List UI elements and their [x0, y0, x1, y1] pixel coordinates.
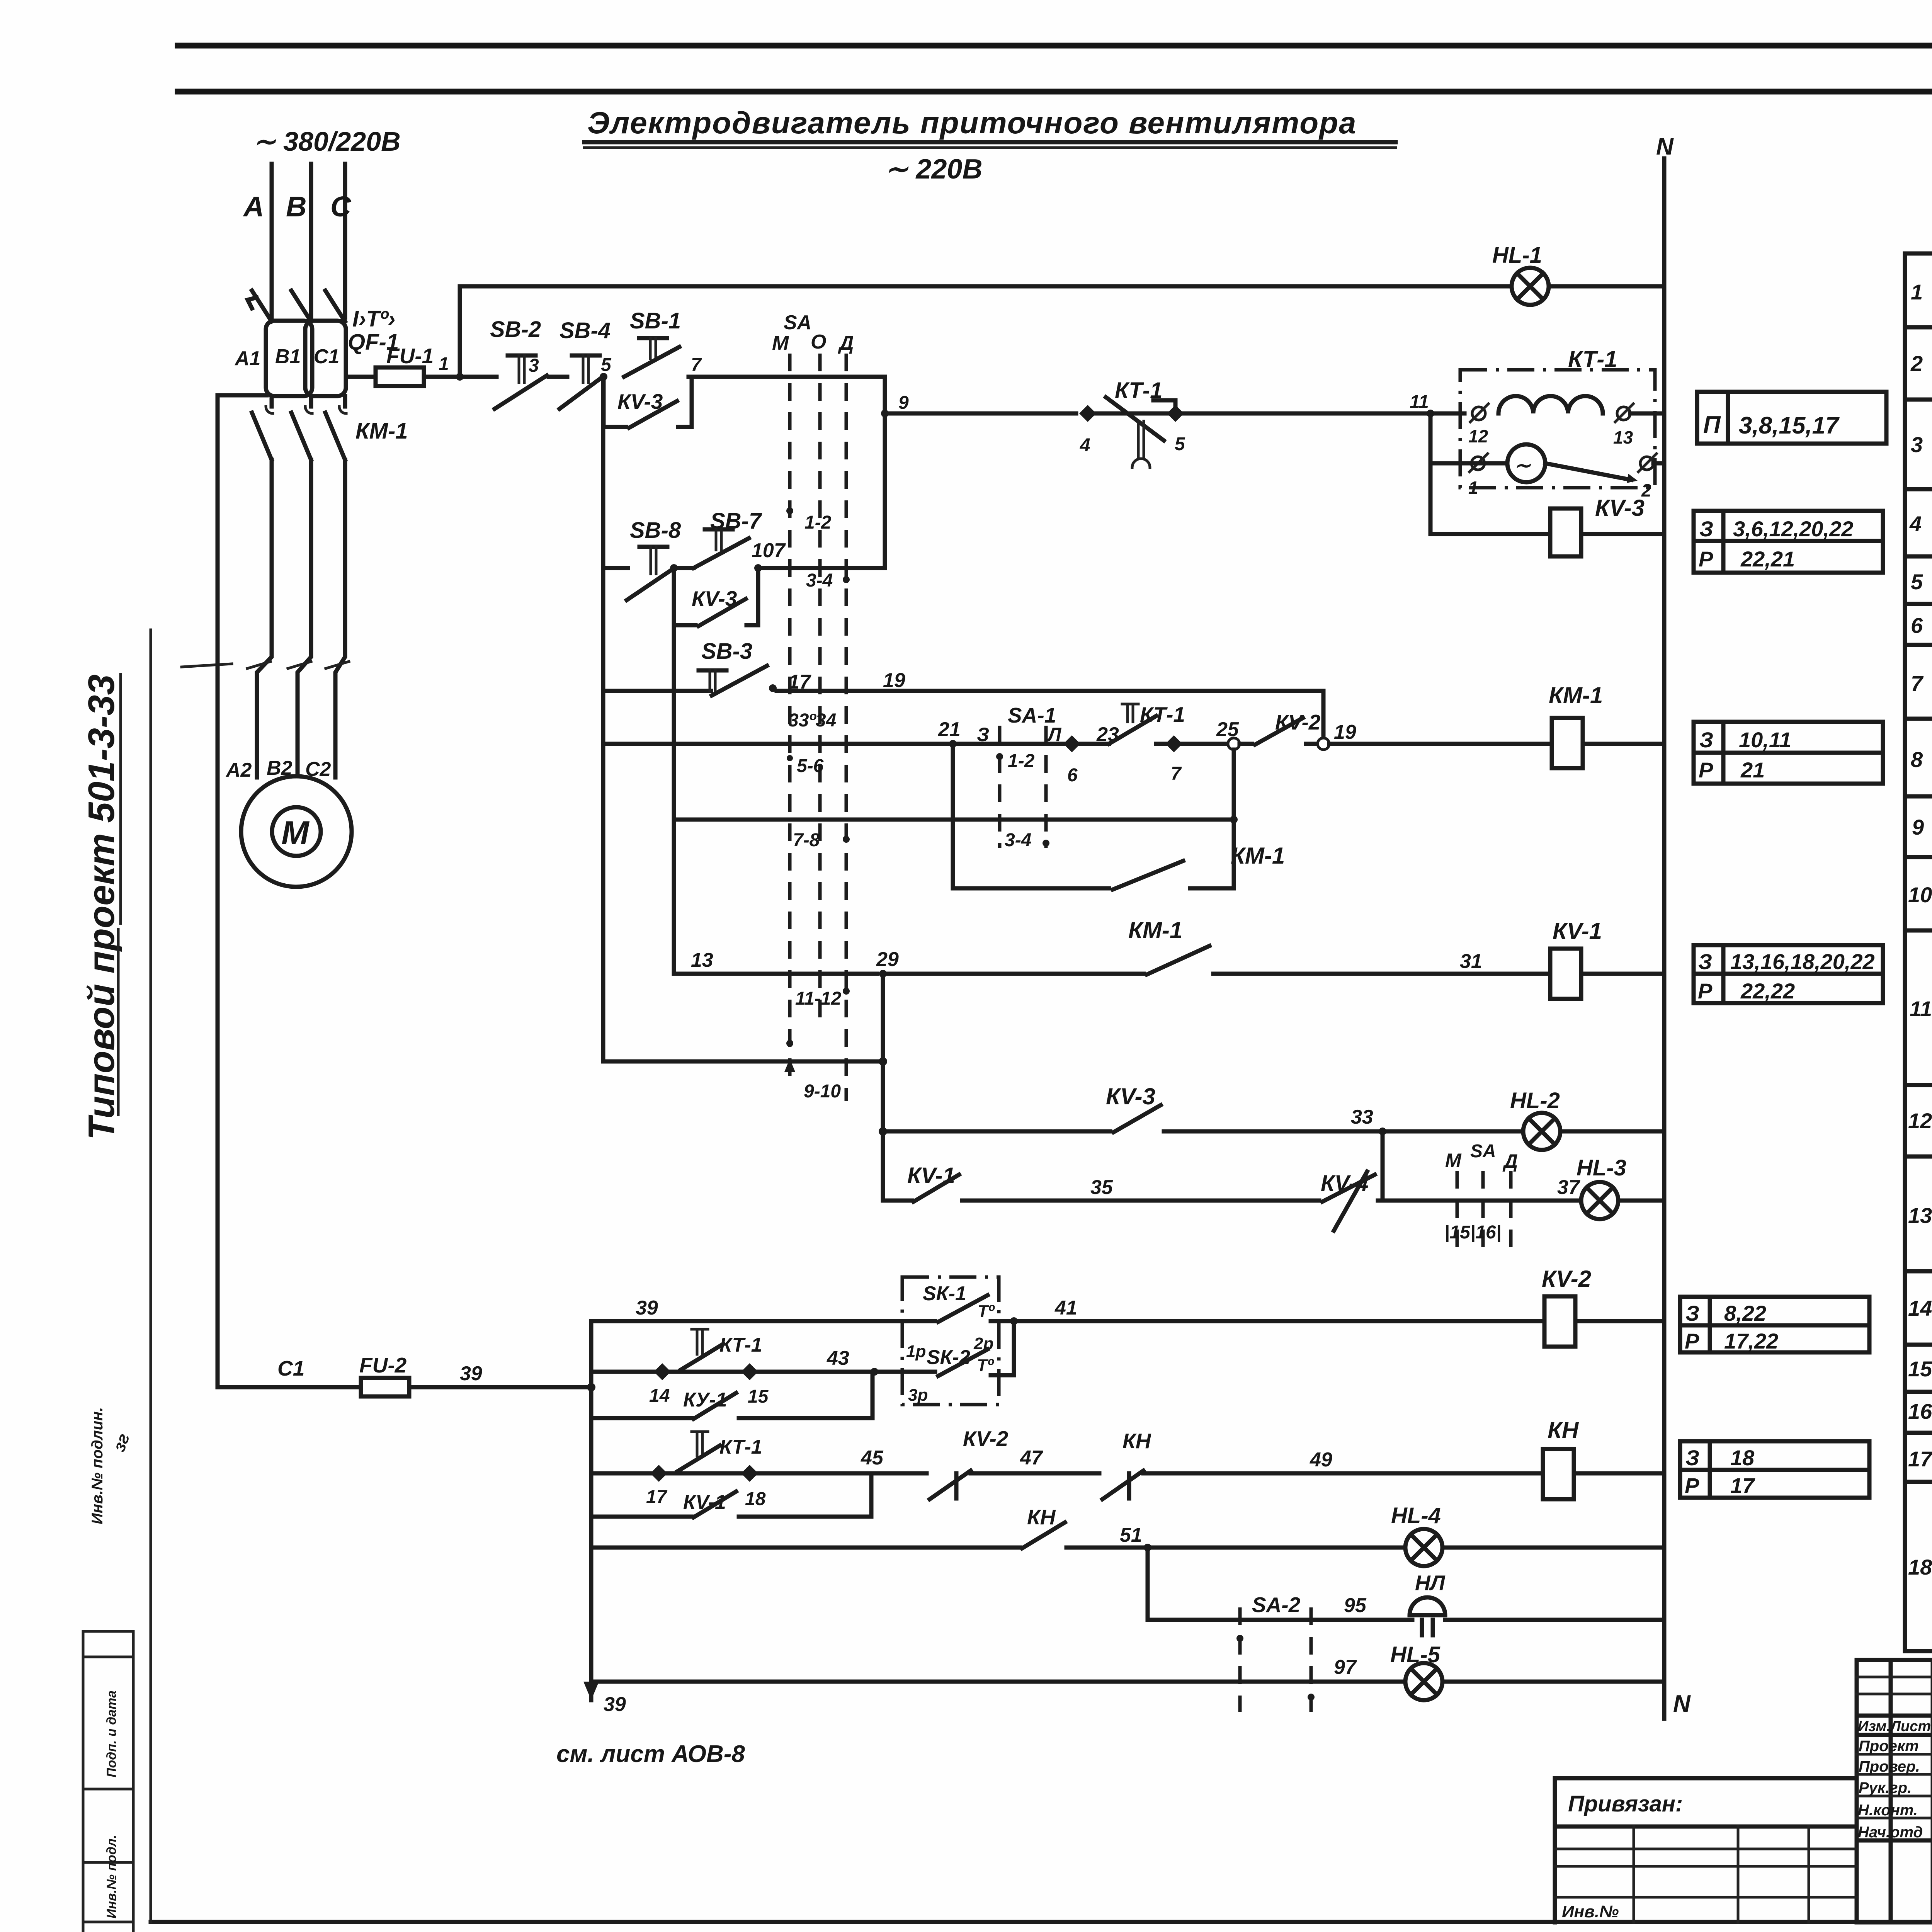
node 21 [949, 740, 957, 748]
svg-text:7: 7 [1171, 764, 1182, 784]
svg-text:43: 43 [827, 1347, 849, 1369]
SA contact dot 5-6 [787, 755, 793, 761]
fuse FU-2 [361, 1378, 409, 1396]
svg-text:Рук.гр.: Рук.гр. [1859, 1779, 1912, 1796]
rung 17 rail left [603, 689, 711, 693]
svg-text:Подп. и дата: Подп. и дата [104, 1690, 119, 1777]
svg-text:6: 6 [1911, 613, 1923, 638]
svg-text:Изм.Лист: Изм.Лист [1858, 1718, 1931, 1735]
svg-text:39: 39 [604, 1693, 626, 1716]
svg-text:Д: Д [838, 332, 854, 354]
test point 7 [1165, 735, 1182, 752]
continuation arrow wire 39 [583, 1682, 599, 1700]
KT-1 time-delay contact (NC) [1096, 400, 1175, 413]
HL-1 rail riser [460, 286, 1512, 377]
rung 35 rail right [1378, 1199, 1581, 1203]
svg-text:SB-4: SB-4 [560, 318, 611, 343]
svg-text:Тº: Тº [977, 1356, 994, 1375]
svg-text:З: З [1685, 1301, 1699, 1325]
svg-text:17,22: 17,22 [1724, 1329, 1778, 1353]
motor lead A [257, 460, 272, 777]
SA contact dot 11-12 [843, 988, 850, 995]
privyazan grid col1 [1633, 1827, 1635, 1922]
contactor KM-1 main contact A [252, 413, 272, 460]
motor M inner circle [272, 807, 321, 856]
svg-text:FU-1: FU-1 [386, 344, 434, 368]
privyazan grid col2 [1737, 1827, 1740, 1922]
ref box KN [1680, 1441, 1869, 1498]
test point 5 [1167, 405, 1184, 422]
KV-1 aux contact (NO) [913, 1175, 959, 1202]
svg-text:39: 39 [636, 1297, 658, 1319]
contactor KM-1 main contact B [291, 413, 311, 460]
KV-1 loop left rung45 [591, 1515, 692, 1519]
SK-2 thermal contact [938, 1349, 988, 1376]
svg-text:∼ 220В: ∼ 220В [885, 154, 982, 185]
motor lead C [335, 460, 345, 777]
SA contact dot 7-8 [843, 836, 850, 843]
svg-text:SК-2: SК-2 [927, 1346, 970, 1369]
SA column O [818, 354, 822, 1028]
svg-text:КТ-1: КТ-1 [719, 1436, 762, 1458]
pushbutton SB-4 (NC) [572, 354, 600, 358]
circuit breaker QF-1 pole A [252, 291, 272, 321]
control feed vertical from A1 [218, 395, 361, 1387]
margin stamp box left line [82, 1631, 85, 1932]
svg-text:11-12: 11-12 [795, 988, 842, 1009]
KM-1 run contact (NO) [1147, 946, 1209, 975]
privyazan grid row line1 [1555, 1825, 1857, 1829]
function table outer box [1905, 253, 1932, 1651]
motor M outer circle [241, 776, 352, 887]
KV-3 seal-in contact [629, 401, 677, 428]
svg-text:17: 17 [1908, 1447, 1932, 1471]
sheet inner frame left line [150, 630, 152, 1922]
svg-text:1: 1 [1468, 478, 1478, 498]
svg-text:Д: Д [1502, 1150, 1518, 1172]
svg-text:8,22: 8,22 [1724, 1301, 1766, 1325]
title block outer [1857, 1660, 1932, 1922]
KV-2 relay coil [1544, 1296, 1575, 1347]
svg-text:С1: С1 [277, 1356, 304, 1380]
svg-text:11: 11 [1910, 997, 1932, 1021]
wire lamp row to N [1653, 461, 1664, 466]
node after SB-8 [670, 564, 678, 572]
KV-3 coil rung [1430, 532, 1550, 536]
KV-3 branch 2 right side [747, 568, 758, 625]
test point 15 [741, 1363, 758, 1380]
svg-text:С: С [330, 190, 352, 223]
svg-text:О: О [811, 331, 826, 353]
svg-text:В1: В1 [275, 345, 301, 368]
rung 35 rail [962, 1199, 1319, 1203]
svg-text:10: 10 [1908, 883, 1932, 907]
KT-1 timer dash-dot enclosure [1460, 370, 1655, 488]
svg-text:КН: КН [1122, 1429, 1151, 1453]
svg-text:1р: 1р [906, 1342, 926, 1361]
pushbutton SB-8 (NC) [639, 545, 667, 549]
svg-text:18: 18 [745, 1489, 766, 1509]
HL-5 to N [1442, 1680, 1664, 1684]
KV-2 coil to N [1575, 1319, 1664, 1323]
wire 13 to N [1630, 412, 1664, 416]
rung 41 rail left [591, 1319, 935, 1323]
svg-text:SК-1: SК-1 [923, 1282, 966, 1305]
wire 23-25 [1156, 742, 1165, 746]
rung HL-5 rail [591, 1680, 1405, 1684]
node 33 riser [1381, 1131, 1385, 1201]
svg-text:Провер.: Провер. [1859, 1758, 1920, 1775]
pushbutton SB-3 (NO) [699, 668, 726, 673]
control bus1 vertical [601, 377, 605, 1061]
SA-2 column a [1238, 1607, 1242, 1712]
svg-text:22,22: 22,22 [1740, 979, 1795, 1003]
svg-text:Типовой проект 501-3-33: Типовой проект 501-3-33 [81, 674, 122, 1140]
svg-text:SА: SА [784, 311, 811, 334]
svg-text:А: А [243, 190, 264, 223]
svg-text:Нач.отд: Нач.отд [1858, 1824, 1923, 1841]
svg-text:17: 17 [646, 1487, 668, 1507]
svg-text:3,6,12,20,22: 3,6,12,20,22 [1733, 517, 1853, 541]
svg-text:КН: КН [1027, 1505, 1056, 1529]
junction feed rail [879, 1057, 887, 1066]
svg-text:21: 21 [1740, 758, 1765, 782]
motor lead B [298, 460, 311, 776]
function table section lines [1905, 325, 1932, 330]
KV-1 bypass contact (NO) [694, 1492, 736, 1517]
lamp terminal 2 [1640, 457, 1653, 470]
svg-text:97: 97 [1334, 1656, 1357, 1679]
KM-1 coil to N [1583, 742, 1664, 746]
svg-text:N: N [1656, 133, 1674, 160]
svg-text:I›Tº›: I›Tº› [352, 306, 395, 332]
control bus2 vertical [672, 625, 676, 974]
SK-1 thermal contact [938, 1295, 988, 1322]
svg-text:∼: ∼ [1514, 454, 1531, 477]
svg-text:SА: SА [1470, 1141, 1496, 1162]
svg-text:см. лист АОВ-8: см. лист АОВ-8 [556, 1741, 745, 1767]
rung 45 rail [758, 1471, 927, 1476]
svg-text:С1: С1 [314, 345, 339, 368]
node 29 [879, 970, 887, 978]
svg-text:7: 7 [1911, 671, 1924, 696]
ref box KV-3 [1694, 511, 1883, 573]
rung 17 rail to corner [777, 689, 1323, 693]
svg-text:Л: Л [1047, 724, 1062, 745]
KV-4 interlock contact [1322, 1175, 1375, 1202]
SA column D [845, 354, 848, 1101]
changeover blade [1545, 463, 1631, 480]
svg-text:22,21: 22,21 [1740, 547, 1795, 571]
margin stamp divider 5 [83, 1921, 133, 1923]
svg-text:33: 33 [1351, 1106, 1373, 1128]
svg-text:N: N [1673, 1690, 1691, 1717]
svg-text:19: 19 [1334, 721, 1356, 743]
svg-text:Р: Р [1685, 1473, 1699, 1498]
svg-text:4: 4 [1909, 512, 1922, 536]
svg-text:SB-8: SB-8 [630, 518, 681, 543]
svg-text:∼ 380/220В: ∼ 380/220В [253, 126, 401, 156]
svg-text:13,16,18,20,22: 13,16,18,20,22 [1730, 949, 1875, 974]
KT-1 interlock contact rung43 [671, 1370, 741, 1374]
KV-3 seal-in contact 2 [699, 599, 746, 626]
svg-text:3р: 3р [908, 1386, 928, 1405]
HL-2 to N [1560, 1129, 1664, 1134]
svg-text:SB-1: SB-1 [630, 308, 681, 333]
remote rail 7-8 [674, 818, 1234, 822]
margin rule segment 1 [119, 674, 122, 923]
svg-text:21: 21 [938, 718, 961, 741]
svg-text:HL-3: HL-3 [1577, 1155, 1626, 1180]
svg-text:Тº: Тº [978, 1302, 995, 1321]
svg-text:41: 41 [1054, 1297, 1077, 1319]
KM-1 latch contact (NO) [1113, 861, 1183, 889]
lamp HL-3 [1581, 1182, 1618, 1219]
number cell dividers [1905, 487, 1932, 492]
phase wire B below breaker [309, 396, 313, 406]
bell branch riser [1146, 1548, 1150, 1620]
rung 41 rail right [991, 1319, 1544, 1323]
lamp terminal 1 [1471, 457, 1485, 470]
rung HL-4 rail [1066, 1546, 1405, 1550]
node 51 [1144, 1544, 1151, 1551]
test point 14 [654, 1363, 671, 1380]
svg-text:З: З [977, 724, 989, 745]
phase wire A below breaker [270, 396, 274, 406]
svg-text:КV-2: КV-2 [1542, 1266, 1591, 1292]
svg-text:11: 11 [1410, 392, 1429, 412]
rung1 wire 3-5 [549, 375, 567, 379]
remote rail junction [1230, 816, 1238, 823]
phase A feeder wire [270, 164, 274, 318]
svg-text:Инв.№ подлин.: Инв.№ подлин. [89, 1407, 106, 1524]
KT-1 pushbutton (NO) [1080, 742, 1109, 746]
svg-text:М: М [772, 332, 789, 354]
svg-text:13: 13 [1908, 1203, 1932, 1228]
margin stamp divider 3 [83, 1788, 133, 1791]
svg-text:39: 39 [460, 1362, 482, 1385]
SA column M [788, 354, 792, 1082]
svg-text:SB-2: SB-2 [490, 317, 541, 342]
phase B feeder wire [309, 164, 313, 318]
HL-4 to N [1442, 1546, 1664, 1550]
KT-1 coil terminal 12 [1472, 407, 1485, 420]
svg-text:12: 12 [1908, 1109, 1932, 1133]
privyazan grid col3 [1808, 1827, 1810, 1922]
HL-3 to N [1618, 1199, 1664, 1203]
svg-text:1-2: 1-2 [804, 512, 832, 533]
svg-text:35: 35 [1090, 1176, 1113, 1199]
KM rung rail 21-6 [953, 742, 1063, 746]
KT-1 coil winding [1498, 396, 1603, 413]
rung 107 to corner riser [758, 566, 885, 570]
junction fu2 [587, 1383, 595, 1391]
boundary tick C [326, 662, 349, 668]
test point 17 [650, 1465, 667, 1482]
junction kv3 rung [879, 1127, 887, 1136]
rung HL-4 rail left [591, 1546, 1020, 1550]
KU-1 loop left [591, 1416, 692, 1420]
wire 19 to KM-1 coil [1306, 742, 1316, 746]
svg-text:SB-3: SB-3 [701, 639, 752, 664]
N bus vertical [1662, 158, 1667, 1719]
svg-text:Инв.№ подл.: Инв.№ подл. [104, 1835, 119, 1918]
KV-1 loop right rung45 [739, 1473, 871, 1517]
svg-text:КV-3: КV-3 [1595, 495, 1645, 521]
KV-3 aux rung left [883, 1129, 1110, 1134]
sheet outer top border line [178, 43, 1932, 49]
svg-text:7: 7 [691, 355, 702, 375]
svg-text:7-8: 7-8 [793, 830, 820, 850]
svg-text:КТ-1: КТ-1 [719, 1334, 762, 1356]
svg-text:Р: Р [1685, 1329, 1699, 1353]
ref box KM-1 [1694, 722, 1883, 784]
SK-2 wire to riser [991, 1321, 1014, 1375]
svg-text:П: П [1703, 412, 1721, 438]
HL-1 rail to N [1549, 284, 1664, 289]
sheet inner frame bottom line [151, 1920, 1932, 1924]
svg-text:А2: А2 [225, 759, 252, 781]
svg-text:13: 13 [691, 949, 713, 971]
svg-text:45: 45 [861, 1447, 884, 1469]
svg-text:З: З [1698, 949, 1712, 974]
bell to N [1445, 1618, 1664, 1622]
svg-text:|15|16|: |15|16| [1444, 1222, 1501, 1243]
SA lamp column D [1509, 1171, 1513, 1256]
svg-text:НЛ: НЛ [1415, 1571, 1446, 1595]
svg-text:6: 6 [1067, 765, 1078, 786]
svg-text:КV-1: КV-1 [1553, 918, 1602, 944]
KT-1 coil terminal 13 [1617, 407, 1630, 420]
svg-text:9-10: 9-10 [804, 1081, 841, 1102]
svg-text:5: 5 [1911, 570, 1923, 594]
SK dash enclosure [902, 1277, 999, 1405]
node 41 [1010, 1317, 1018, 1325]
relay block vertical [881, 974, 885, 1201]
KV-3 seal-in branch of SB-7 [674, 568, 696, 625]
KM-1 latch branch right [1190, 750, 1234, 888]
svg-text:5: 5 [601, 355, 612, 375]
rung 45 rail left [591, 1471, 650, 1476]
margin stamp divider 2 [83, 1656, 133, 1658]
svg-text:3: 3 [529, 355, 539, 376]
svg-text:З: З [1685, 1446, 1699, 1470]
svg-text:95: 95 [1344, 1594, 1367, 1617]
svg-text:10,11: 10,11 [1739, 728, 1791, 752]
KM-1 latch branch left [953, 744, 1109, 888]
wire to node 25 [1182, 742, 1228, 746]
SA contact dot 3-4b [843, 576, 850, 583]
node 11 [1427, 410, 1434, 417]
svg-text:Инв.№: Инв.№ [1562, 1902, 1619, 1921]
svg-text:1: 1 [439, 354, 449, 374]
svg-text:HL-4: HL-4 [1391, 1503, 1441, 1528]
svg-text:25: 25 [1216, 718, 1239, 741]
phase wire C below breaker [343, 396, 347, 406]
lamp HL-5 [1405, 1663, 1442, 1700]
svg-text:SА-2: SА-2 [1252, 1593, 1301, 1617]
svg-text:КV-1: КV-1 [907, 1163, 955, 1188]
svg-text:33º34: 33º34 [788, 710, 836, 731]
feed rail to relay block [603, 1060, 883, 1064]
svg-text:Р: Р [1698, 979, 1713, 1003]
SA lamp column SA [1481, 1171, 1485, 1256]
wire 9 [885, 412, 1076, 416]
test point 18 [741, 1465, 758, 1482]
branch node11 to lamp row [1429, 413, 1433, 534]
svg-text:М: М [281, 815, 310, 852]
svg-text:4: 4 [1080, 435, 1090, 456]
svg-text:19: 19 [883, 669, 905, 692]
node 5 [600, 373, 607, 381]
svg-text:В: В [286, 190, 306, 223]
cable boundary tick line [182, 664, 232, 667]
KM rung rail left [603, 742, 951, 746]
KN interlock contact (NC) [1102, 1471, 1143, 1499]
svg-text:8: 8 [1911, 747, 1923, 772]
test point 4 [1079, 405, 1096, 422]
KN lamp contact (NO) [1022, 1522, 1065, 1548]
rung 13 corner [674, 972, 877, 976]
KV-2 interlock contact (NC) [930, 1471, 971, 1499]
pushbutton SB-2 (NC) [508, 354, 536, 358]
ref box KV-2 [1680, 1297, 1869, 1352]
circuit breaker QF-1 pole B [291, 291, 311, 321]
svg-text:КМ-1: КМ-1 [355, 418, 408, 444]
bell rung rail [1148, 1618, 1412, 1622]
svg-text:КМ-1: КМ-1 [1549, 682, 1603, 708]
KV-3 branch right side [678, 377, 692, 427]
SA-2 column b [1310, 1607, 1313, 1712]
KV-2 seal-in contact (NO) [1240, 742, 1252, 746]
svg-text:14: 14 [1908, 1296, 1932, 1320]
svg-text:49: 49 [1310, 1449, 1332, 1471]
svg-text:КV-2: КV-2 [963, 1427, 1009, 1451]
pushbutton SB-1 (NO) [639, 336, 667, 340]
pushbutton SB-7 (NO) [674, 566, 694, 570]
KM-1 contactor coil [1552, 718, 1583, 768]
KV-1 aux rung [883, 1199, 912, 1203]
SA column M end arrow [784, 1059, 795, 1072]
svg-text:13: 13 [1613, 427, 1633, 447]
KV-3 aux contact (NO) [1114, 1105, 1161, 1132]
svg-text:А1: А1 [234, 347, 260, 370]
svg-text:HL-2: HL-2 [1510, 1088, 1560, 1113]
rung 43 rail to junction [758, 1370, 935, 1374]
svg-text:КМ-1: КМ-1 [1128, 917, 1182, 943]
svg-text:3-4: 3-4 [806, 570, 833, 591]
boundary tick B [288, 662, 311, 668]
corner riser to wire 9 [883, 377, 887, 568]
boundary tick A [247, 662, 270, 668]
node 19 connector [1318, 738, 1329, 750]
junction 43 [871, 1368, 878, 1376]
margin rule segment 2 [117, 929, 120, 1115]
svg-text:Н.конт.: Н.конт. [1858, 1802, 1918, 1819]
corner 19 riser [1321, 691, 1326, 744]
svg-text:5-6: 5-6 [797, 756, 824, 776]
rung 45 rail right [1143, 1471, 1543, 1476]
lamp HL-4 [1405, 1529, 1442, 1566]
SA-1 contact column 1-2 [998, 726, 1002, 848]
svg-text:18: 18 [1730, 1446, 1755, 1470]
svg-text:9: 9 [1912, 815, 1924, 839]
wire 1 fuse to control bus [424, 375, 460, 379]
rung 45 rail mid [971, 1471, 1099, 1476]
svg-text:Электродвигатель приточного: Электродвигатель приточного вентилятора [587, 105, 1357, 140]
KV-3 relay coil [1550, 509, 1581, 556]
svg-text:29: 29 [876, 948, 899, 971]
